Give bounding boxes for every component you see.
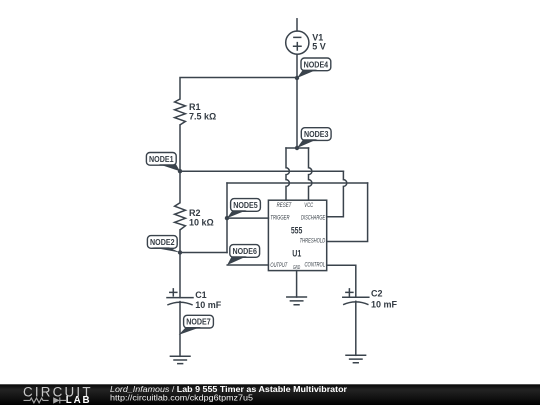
svg-text:U1: U1 [292,249,301,259]
voltage source V1 [286,31,309,54]
node NODE3 junction dot [295,146,299,150]
svg-text:NODE1: NODE1 [149,154,174,164]
node label NODE3 [297,128,331,148]
svg-text:10 kΩ: 10 kΩ [189,217,214,227]
svg-text:OUTPUT: OUTPUT [270,262,288,269]
wire TRIGGER branch [227,217,268,219]
wire NODE2 to C1 [179,253,181,298]
svg-text:10 mF: 10 mF [195,300,222,310]
svg-text:7.5 kΩ: 7.5 kΩ [189,111,216,121]
node label NODE1 [146,153,180,172]
svg-text:TRIGGER: TRIGGER [270,215,289,222]
svg-text:C1: C1 [195,290,207,300]
label C2 10 mF [371,289,398,310]
wire GND pin down [296,271,298,297]
svg-text:555: 555 [291,225,303,235]
wire NODE4 to NODE3 [296,78,298,148]
svg-text:NODE5: NODE5 [233,200,258,210]
wire CONTROL to C2 [327,265,356,297]
node label NODE2 [147,236,180,253]
node NODE7 [179,315,214,335]
svg-text:NODE7: NODE7 [186,317,211,327]
node NODE1 junction dot [178,169,182,173]
wire NODE1 to R2 [179,171,181,203]
label C1 10 mF [195,290,222,310]
node label NODE6 [227,245,259,265]
wire C1 to ground [179,302,181,357]
resistor R2 [175,203,186,230]
svg-text:C2: C2 [371,289,383,299]
node label NODE5 [227,199,260,219]
svg-text:CONTROL: CONTROL [305,262,326,269]
wire V1 to NODE4 junction [296,54,298,78]
node NODE4 junction dot [295,76,299,80]
label R2 10 kOhm [189,208,214,228]
svg-text:R2: R2 [189,208,201,218]
wire NODE2 to trigger riser [180,252,227,254]
capacitor C1 (polarized) [167,289,193,305]
svg-text:http://circuitlab.com/ckdpg6tp: http://circuitlab.com/ckdpg6tpmz7u5 [110,393,253,403]
node NODE2 junction dot [178,250,182,254]
CircuitLab logo squiggle (resistor + diode) [24,397,67,403]
footer bar [0,384,540,405]
resistor R1 [175,99,186,125]
wire trigger riser vertical [226,183,228,253]
svg-text:LAB: LAB [66,395,92,405]
wire threshold drop and into pin [327,183,368,242]
wire top rail from R1 to NODE4 junction [180,78,297,100]
capacitor C2 (polarized) [343,289,369,305]
CircuitLab logo diode triangle [53,397,60,403]
ground under C2 [346,355,366,363]
wire R2 to NODE2 junction [179,230,181,253]
svg-text:NODE6: NODE6 [232,246,257,256]
node NODE5 junction dot [225,216,229,220]
ground under GND pin [287,297,307,305]
svg-text:VCC: VCC [304,202,313,209]
wire R1 to NODE1 junction [179,125,181,171]
op-amp U1 555 timer body [268,200,326,270]
svg-text:RESET: RESET [277,202,292,209]
svg-text:NODE4: NODE4 [304,59,329,69]
wire TRIGGER-THRESHOLD horizontal run y=183 [227,182,368,184]
svg-text:THRESHOLD: THRESHOLD [300,238,326,245]
svg-text:DISCHARGE: DISCHARGE [301,215,326,222]
label R1 7.5 kOhm [189,102,216,122]
svg-text:5 V: 5 V [312,41,326,51]
node label NODE4 [297,58,331,78]
svg-text:10 mF: 10 mF [371,300,398,310]
wire OUTPUT stub [227,264,268,266]
wire C2 to ground [355,301,357,355]
svg-text:NODE2: NODE2 [150,237,175,247]
wire NODE1 to DISCHARGE (horizontal run, corner, down, into pin) [180,171,347,217]
svg-text:NODE3: NODE3 [304,129,329,139]
wire top connector RESET-VCC [286,147,309,149]
wire VCC vertical with hops [309,148,312,200]
svg-text:R1: R1 [189,102,201,112]
label V1 5 V [312,32,326,51]
ground under C1 [170,356,190,363]
wire RESET vertical with hops [286,148,289,200]
wire top stub above V1 [296,19,298,31]
